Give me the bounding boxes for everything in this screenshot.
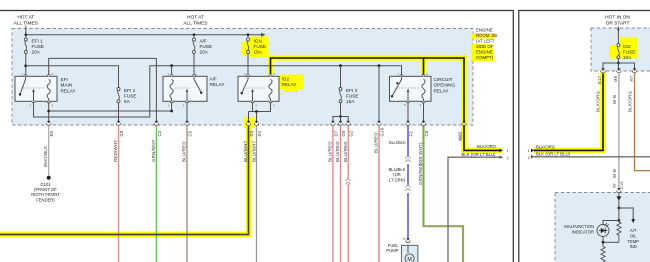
- svg-text:BLK (OR LT BLU): BLK (OR LT BLU): [536, 152, 571, 157]
- svg-text:OPENING: OPENING: [434, 83, 456, 88]
- svg-text:GRN/RED: GRN/RED: [418, 163, 423, 185]
- svg-text:BLU/WHT: BLU/WHT: [243, 140, 248, 162]
- wire IGN fuse to IO2 relay switch: [247, 54, 249, 77]
- svg-text:C8: C8: [424, 130, 429, 136]
- combination meter (dashed box): [555, 193, 650, 262]
- highlight blob: IGN fuse: [250, 37, 269, 58]
- svg-text:H7: H7: [629, 75, 634, 81]
- highlight blob: IG2 fuse: [620, 38, 637, 59]
- svg-text:2: 2: [528, 156, 530, 160]
- J/B pins E17 M6 H7: [601, 68, 605, 71]
- svg-text:IND: IND: [630, 244, 637, 249]
- wire EFI2 fuse to pin G9: [118, 103, 120, 121]
- wire drop to pin D4: [256, 112, 258, 122]
- svg-text:EFI: EFI: [61, 77, 68, 82]
- wire GRN/RED (C8): [424, 126, 464, 262]
- svg-text:GRN/WHT: GRN/WHT: [151, 139, 156, 162]
- wire coil ground bus to A/F relay coil bottom: [49, 101, 172, 111]
- wire drop to pin D3: [248, 112, 250, 122]
- svg-text:WHT/BLK: WHT/BLK: [43, 146, 48, 167]
- connector C15 pin 39: [617, 188, 621, 191]
- feed wire from HOT AT ALL TIMES label: [25, 26, 27, 35]
- relay EFI MAIN: [15, 76, 57, 101]
- svg-text:E17: E17: [597, 75, 602, 84]
- svg-text:FUSE: FUSE: [124, 93, 137, 98]
- svg-text:BLU/RED: BLU/RED: [328, 141, 333, 162]
- svg-text:EFI 1: EFI 1: [32, 38, 44, 43]
- svg-text:BLU/WHT: BLU/WHT: [251, 140, 256, 162]
- svg-text:15A: 15A: [254, 50, 263, 55]
- malfunction indicator lamp (LED): [597, 225, 609, 237]
- wire branch to pin G19: [378, 66, 380, 121]
- svg-text:1: 1: [507, 149, 509, 153]
- svg-text:PUMP: PUMP: [386, 248, 398, 253]
- svg-text:HOT IN ON: HOT IN ON: [605, 15, 630, 21]
- svg-text:10A: 10A: [623, 55, 632, 60]
- fuse EFI 1 20A: [24, 38, 27, 53]
- svg-text:D3: D3: [249, 130, 254, 136]
- svg-text:A/T: A/T: [630, 228, 637, 233]
- svg-text:RELAY: RELAY: [434, 88, 450, 93]
- svg-text:FUSE: FUSE: [254, 44, 267, 49]
- fuse EFI 2 5A: [117, 88, 120, 103]
- svg-text:D4: D4: [257, 130, 262, 136]
- node IO2 output: [255, 110, 258, 113]
- svg-text:EFI 3: EFI 3: [346, 88, 358, 93]
- svg-text:BLU/RED: BLU/RED: [182, 141, 187, 162]
- node A/F relay coil feed: [170, 64, 173, 67]
- svg-text:RELAY: RELAY: [210, 82, 226, 87]
- relay CIRCUIT OPENING: [390, 76, 432, 101]
- svg-text:FENDER): FENDER): [36, 197, 55, 202]
- wire A/F relay switch output to pin C6: [186, 101, 188, 121]
- svg-text:TEMP: TEMP: [628, 239, 640, 244]
- wire BLU/BLK (F3) to fuel pump: [407, 126, 409, 156]
- wire EFI MAIN coil bottom to ground pin E9: [48, 101, 50, 121]
- wire IG2 fuse output branches: [617, 59, 619, 69]
- label MALFUNCTION INDICATOR: [564, 224, 594, 234]
- svg-text:G5: G5: [341, 130, 346, 137]
- svg-text:M: M: [407, 257, 412, 262]
- svg-text:IO2: IO2: [282, 77, 290, 82]
- wire EFI1 bus to EFI2 fuse: [26, 66, 119, 88]
- svg-text:F3: F3: [409, 131, 414, 137]
- wire EFI MAIN relay switch output bus: [34, 66, 402, 117]
- wire GRN/WHT (C3): [155, 126, 157, 262]
- svg-text:EFI 2: EFI 2: [124, 88, 136, 93]
- wire A/F relay coil top: [171, 66, 173, 77]
- svg-text:OIL: OIL: [630, 233, 637, 238]
- lamp + resistor join, lower resistor: [602, 237, 604, 243]
- svg-text:G19: G19: [380, 127, 385, 136]
- feed HOT IN ON OR START to IG2 fuse: [617, 27, 619, 44]
- svg-text:20A: 20A: [32, 50, 41, 55]
- node EFI1 output: [24, 64, 27, 67]
- fuse IG2 10A (highlighted): [617, 44, 620, 59]
- svg-text:C6: C6: [188, 130, 193, 136]
- svg-text:ENGINE: ENGINE: [476, 28, 493, 33]
- svg-text:2: 2: [507, 156, 509, 160]
- svg-text:SIDE OF: SIDE OF: [476, 44, 494, 49]
- svg-text:1: 1: [528, 149, 530, 153]
- label HOT AT ALL TIMES (center): [183, 15, 207, 27]
- ground G101: [47, 176, 51, 180]
- node coil ground bus: [47, 110, 50, 113]
- svg-text:A/F: A/F: [200, 38, 207, 43]
- svg-text:20A: 20A: [200, 50, 209, 55]
- svg-text:BLU/RED: BLU/RED: [335, 141, 340, 162]
- svg-text:M6: M6: [613, 75, 618, 82]
- wire W-B (M6) to combination meter: [618, 74, 620, 189]
- svg-text:BLU/BLK: BLU/BLK: [389, 140, 406, 145]
- svg-text:E9: E9: [49, 130, 54, 136]
- svg-text:A/F: A/F: [210, 77, 217, 82]
- svg-text:ROOM J/B: ROOM J/B: [476, 33, 497, 38]
- svg-text:BLK/ORG: BLK/ORG: [628, 90, 633, 112]
- wire EFI1 fuse to EFI MAIN relay switch: [25, 54, 27, 77]
- resistor (meter): [617, 221, 621, 243]
- svg-text:IG2: IG2: [623, 44, 631, 49]
- svg-text:C3: C3: [157, 130, 162, 136]
- wire EFI3 fuse output branches: [340, 103, 342, 117]
- wire BLU/RED (D7): [332, 126, 334, 262]
- label HOT AT ALL TIMES (left): [14, 15, 38, 27]
- inline connectors on fuel pump wire: [405, 156, 410, 162]
- svg-text:BLU/RED: BLU/RED: [374, 132, 379, 153]
- J/B bottom connector pins: [47, 121, 51, 124]
- svg-text:(AT LEFT: (AT LEFT: [476, 39, 495, 44]
- svg-text:G2: G2: [349, 130, 354, 137]
- svg-text:W-B: W-B: [612, 95, 617, 104]
- svg-text:D7: D7: [333, 130, 338, 136]
- svg-text:FUSE: FUSE: [623, 49, 636, 54]
- highlight trace: BLU/WHT wire D3 down and left: [0, 120, 249, 235]
- wire BLU/RED (G2): [347, 126, 349, 179]
- svg-text:ENGINE: ENGINE: [476, 50, 493, 55]
- node branch to A/T OIL TEMP IND: [618, 207, 621, 210]
- wire to EFI3 fuse: [340, 66, 342, 88]
- wire name BLU/BLK (OR LT GRN): [389, 167, 406, 182]
- flow arrow inside meter: [618, 193, 620, 196]
- highlight blob: IO2 relay label: [280, 75, 304, 90]
- wire COR coil bottom to pin C8: [423, 101, 425, 121]
- wire BLK (OR LT BLU) crossing panel: [534, 156, 650, 158]
- arrow end of BLK/ORG to connector 1: [500, 149, 504, 152]
- label HOT IN ON OR START: [605, 15, 630, 27]
- svg-text:CIRCUIT: CIRCUIT: [434, 77, 453, 82]
- svg-text:RED/WHT: RED/WHT: [113, 140, 118, 162]
- inline connector on G2 wire: [346, 179, 351, 185]
- label A/T OIL TEMP IND: [628, 228, 640, 249]
- svg-text:5A: 5A: [124, 99, 131, 104]
- svg-text:C15: C15: [620, 181, 624, 189]
- right panel: junction block (dashed): [591, 28, 650, 71]
- svg-text:COMPT): COMPT): [476, 55, 494, 60]
- svg-text:W-B: W-B: [612, 169, 617, 178]
- svg-text:MAIN: MAIN: [61, 83, 73, 88]
- svg-text:FUSE: FUSE: [346, 93, 359, 98]
- wire WHT/BLK to ground G101: [48, 126, 50, 176]
- svg-text:ALL TIMES: ALL TIMES: [183, 21, 207, 27]
- svg-text:G9: G9: [119, 130, 124, 137]
- wire BLK/ORG (E17) highlighted core: [534, 74, 603, 151]
- svg-text:RELAY: RELAY: [61, 88, 77, 93]
- ENGINE ROOM J/B label (right of box): [472, 33, 496, 39]
- svg-text:4: 4: [403, 237, 405, 241]
- svg-text:(OR WHT): (OR WHT): [418, 142, 423, 165]
- svg-text:HOT AT: HOT AT: [17, 15, 34, 21]
- wire BLU/RED (C6): [186, 126, 188, 262]
- svg-text:BLK/ORG: BLK/ORG: [536, 144, 556, 149]
- svg-text:BLU/RED: BLU/RED: [343, 141, 348, 162]
- fuse feed drops: [25, 35, 27, 38]
- svg-text:BLK/ORG: BLK/ORG: [596, 90, 601, 112]
- fuse A/F 20A: [193, 38, 196, 53]
- svg-text:RELAY: RELAY: [282, 82, 298, 87]
- right schematic page frame: [519, 11, 650, 262]
- svg-text:BLK/ORG: BLK/ORG: [477, 144, 497, 149]
- wire BLK (OR LT BLU) off page: [448, 157, 501, 262]
- svg-text:IGN: IGN: [254, 38, 262, 43]
- hot bus with end arrow: [26, 34, 262, 36]
- svg-text:MALFUNCTION: MALFUNCTION: [564, 224, 594, 229]
- highlight blob: D3/D4 pins: [244, 117, 255, 128]
- wire IO2 relay outputs bus: [252, 101, 254, 111]
- svg-text:OR START: OR START: [606, 21, 630, 27]
- svg-text:15A: 15A: [346, 99, 355, 104]
- wire BLU/WHT (D3) highlighted core: [0, 126, 249, 235]
- wire BLU/RED (G5): [340, 126, 342, 262]
- svg-text:G12: G12: [458, 132, 463, 141]
- fuel pump: [401, 245, 418, 262]
- fuse IGN 15A (highlighted): [247, 38, 250, 53]
- svg-text:BLK (OR LT BLU): BLK (OR LT BLU): [462, 152, 497, 157]
- node EFI3 fuse feed: [339, 64, 342, 67]
- off-page connector arrows (right panel): [531, 149, 535, 152]
- svg-text:FUSE: FUSE: [32, 44, 45, 49]
- wire A/F fuse to A/F relay switch: [193, 54, 195, 77]
- left schematic page frame: [0, 11, 513, 262]
- wire BLU/WHT (D4): [256, 126, 258, 262]
- wire BLU/RED (G19): [378, 126, 380, 262]
- svg-text:HOT AT: HOT AT: [187, 15, 204, 21]
- highlighted wire core: yellow trace black center: [271, 58, 502, 150]
- svg-text:LT GRN): LT GRN): [389, 177, 406, 182]
- node G19 branch: [378, 64, 381, 67]
- engine room junction block (dashed box): [12, 29, 473, 126]
- node A/F coil bottom: [170, 110, 173, 113]
- fuse EFI 3 15A: [339, 88, 342, 103]
- relay A/F: [163, 76, 207, 101]
- wire COR switch output to pin F3: [407, 101, 409, 121]
- wire EFI MAIN relay coil top to pin C3 (GRN/WHT): [49, 58, 157, 121]
- svg-text:INDICATOR: INDICATOR: [572, 229, 594, 234]
- node branch to MIL lamp: [618, 208, 620, 221]
- wire RED/WHT (G9): [118, 126, 120, 262]
- svg-text:39: 39: [612, 183, 616, 188]
- relay IO2 (highlighted label): [238, 76, 279, 101]
- svg-text:FUSE: FUSE: [200, 44, 213, 49]
- highlight trace: IG2 circuit through J/B: [271, 58, 502, 150]
- wire BLK/ORG (H7) off right edge: [635, 74, 650, 171]
- highlight trace: E17 BLK/ORG wire: [534, 73, 603, 151]
